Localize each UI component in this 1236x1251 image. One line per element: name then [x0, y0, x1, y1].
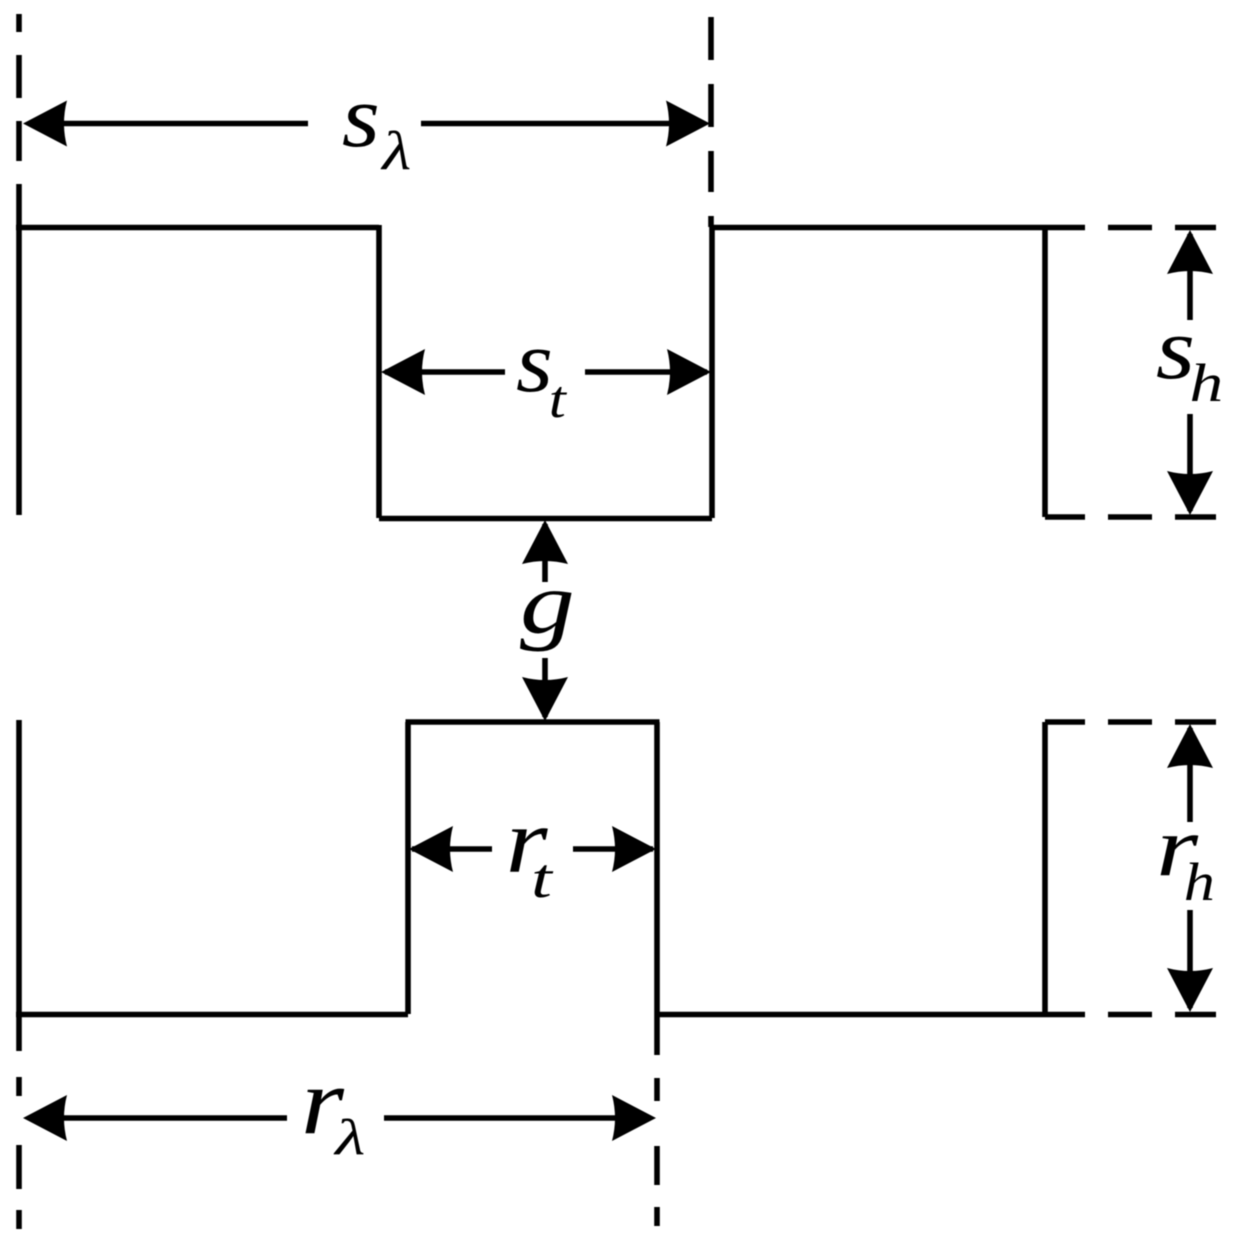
arrowhead s_t right — [667, 349, 711, 395]
arrowhead s_h up — [1167, 230, 1213, 274]
dimension s_h line — [1187, 234, 1193, 511]
arrowhead s_lambda left — [23, 101, 67, 147]
arrowhead s_t left — [381, 349, 425, 395]
dimension r_t line — [412, 846, 653, 852]
dimension r_lambda line — [30, 1115, 650, 1121]
stator right slot bottom stub wire — [1045, 514, 1085, 520]
rotor tooth left wall wire — [405, 722, 411, 1014]
arrowhead r_lambda left — [23, 1095, 67, 1141]
stator left edge wire — [16, 184, 22, 515]
stator right tooth wall wire — [1042, 228, 1048, 518]
svg-text:s: s — [516, 313, 553, 410]
stator top surface wire right — [712, 225, 1085, 231]
rotor tooth right wall wire — [654, 722, 660, 1055]
svg-text:h: h — [1184, 852, 1215, 912]
rotor right tooth top stub wire — [1045, 719, 1085, 725]
arrowhead r_t left — [409, 826, 453, 872]
svg-text:t: t — [531, 848, 554, 910]
svg-text:g: g — [520, 554, 575, 653]
arrowhead g down — [522, 677, 568, 721]
arrowhead r_lambda right — [612, 1095, 656, 1141]
svg-text:s: s — [342, 69, 380, 166]
arrowhead r_t right — [612, 826, 656, 872]
rotor top-right dashed extension at y=722 — [1108, 719, 1216, 725]
rotor right tooth wall wire — [1042, 722, 1048, 1014]
stator slot bottom wire — [379, 516, 712, 522]
stator left boundary dashed line — [16, 14, 22, 161]
stator top-right dashed extension at y=227 — [1108, 225, 1216, 231]
svg-text:t: t — [549, 371, 568, 429]
dimension g line — [542, 524, 548, 717]
arrowhead r_h down — [1167, 968, 1213, 1012]
arrowhead r_h up — [1167, 724, 1213, 768]
stator bottom-right dashed extension at y=517 — [1108, 514, 1216, 520]
stator slot right wall wire — [709, 225, 715, 518]
rotor surface wire right — [657, 1012, 1085, 1018]
stator top surface wire left — [16, 225, 379, 231]
rotor right boundary dashed line below tooth — [654, 1078, 660, 1226]
stator right boundary dashed line — [708, 17, 714, 227]
rotor bottom-right dashed extension at y=1014 — [1108, 1012, 1216, 1018]
dimension s_lambda line — [30, 121, 703, 127]
svg-text:λ: λ — [333, 1110, 365, 1166]
svg-text:λ: λ — [380, 120, 411, 181]
stator slot left wall wire — [376, 225, 382, 518]
rotor tooth top wire — [406, 719, 660, 725]
rotor left boundary dashed line below — [16, 1077, 22, 1229]
arrowhead s_h down — [1167, 471, 1213, 515]
arrowhead g up — [522, 520, 568, 564]
svg-text:h: h — [1190, 354, 1224, 413]
rotor surface wire left — [16, 1012, 408, 1018]
arrowhead s_lambda right — [666, 101, 710, 147]
rotor left edge wire — [16, 720, 22, 1051]
dimension s_t line — [385, 369, 707, 375]
dimension r_h line — [1187, 728, 1193, 1008]
